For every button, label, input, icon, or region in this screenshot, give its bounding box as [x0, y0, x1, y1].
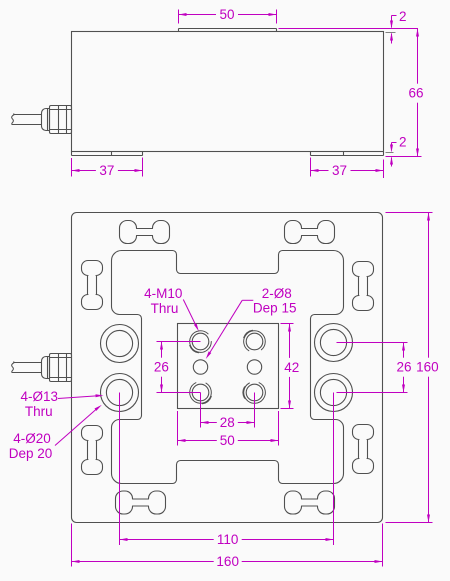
svg-text:Thru: Thru [25, 404, 53, 419]
svg-text:4-M10: 4-M10 [144, 286, 182, 301]
svg-text:2-Ø8: 2-Ø8 [262, 286, 292, 301]
svg-text:4-Ø13: 4-Ø13 [21, 389, 59, 404]
svg-text:160: 160 [416, 360, 439, 375]
svg-text:37: 37 [99, 163, 114, 178]
svg-text:26: 26 [154, 360, 169, 375]
svg-text:37: 37 [332, 163, 347, 178]
svg-text:Dep 15: Dep 15 [253, 301, 297, 316]
svg-text:42: 42 [284, 360, 299, 375]
svg-text:50: 50 [219, 7, 234, 22]
svg-text:26: 26 [396, 360, 411, 375]
svg-text:2: 2 [399, 9, 407, 24]
svg-text:66: 66 [408, 86, 423, 101]
svg-text:28: 28 [220, 415, 235, 430]
svg-text:160: 160 [216, 554, 239, 569]
svg-text:4-Ø20: 4-Ø20 [13, 431, 51, 446]
svg-text:50: 50 [220, 433, 235, 448]
svg-text:Dep 20: Dep 20 [9, 446, 53, 461]
svg-text:110: 110 [217, 532, 239, 547]
svg-text:Thru: Thru [151, 301, 179, 316]
svg-text:2: 2 [399, 134, 407, 149]
